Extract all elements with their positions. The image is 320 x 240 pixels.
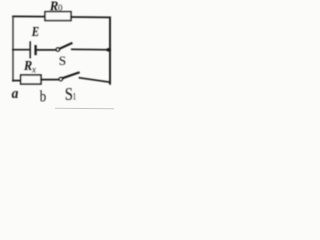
wire top-right segment (71, 16, 110, 18)
switch S1 pivot circle (59, 77, 62, 80)
wire middle-left to battery (13, 49, 29, 51)
wire switch S1 to right (80, 78, 111, 82)
battery E long plate (29, 42, 31, 58)
junction node at right wire (106, 48, 111, 52)
wire Rx to switch S1 (41, 79, 59, 81)
wire right vertical (109, 17, 111, 83)
svg-text:R: R (23, 57, 32, 73)
switch S1 blade (63, 73, 79, 79)
resistor Rx box (21, 75, 41, 84)
svg-text:a: a (12, 85, 19, 102)
svg-text:1: 1 (73, 92, 77, 102)
wire bottom-left segment (13, 80, 21, 82)
faint scan line bottom (55, 107, 114, 110)
wire switch S to right (72, 48, 109, 51)
svg-text:0: 0 (58, 3, 63, 13)
switch S pivot circle (56, 48, 59, 51)
wire battery to switch S (37, 49, 56, 51)
wire left vertical (12, 16, 14, 81)
wire top-left segment (13, 15, 45, 17)
svg-text:E: E (31, 24, 39, 39)
switch S blade (60, 43, 72, 48)
resistor R0 (45, 12, 71, 21)
svg-text:S: S (59, 53, 66, 68)
svg-text:x: x (31, 65, 36, 75)
svg-text:b: b (40, 88, 46, 106)
svg-text:S: S (65, 84, 73, 105)
battery E short plate (34, 46, 36, 54)
svg-text:R: R (49, 0, 59, 14)
